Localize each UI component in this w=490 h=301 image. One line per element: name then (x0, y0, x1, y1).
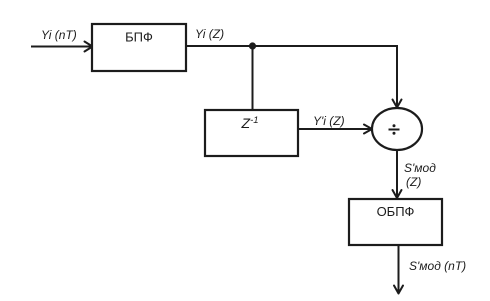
wire: Z-1 output to divider (298, 125, 372, 134)
block Z^-1 (205, 110, 298, 156)
arrowhead into divider top (393, 100, 402, 108)
svg-text:ОБПФ: ОБПФ (377, 204, 415, 219)
node: junction dot (249, 42, 256, 49)
svg-text:Yi (Z): Yi (Z) (195, 27, 224, 41)
wire: output arrow from ОБПФ (394, 245, 403, 294)
svg-text:Yi (nT): Yi (nT) (41, 28, 77, 42)
wire: input arrow into БПФ (31, 42, 93, 52)
block БПФ (92, 24, 186, 71)
svg-text:(Z): (Z) (406, 175, 421, 189)
svg-text:S'мод (nT): S'мод (nT) (409, 259, 466, 273)
wire: junction down to Z-1 (252, 46, 254, 110)
block ОБПФ (349, 199, 442, 245)
wire: divider to ОБПФ (393, 150, 402, 198)
label S'мод (Z) (404, 161, 436, 189)
divider U1 (372, 108, 422, 150)
svg-text:Y'i (Z): Y'i (Z) (313, 114, 345, 128)
svg-text:БПФ: БПФ (125, 30, 153, 45)
svg-text:S'мод: S'мод (404, 161, 436, 175)
wire: БПФ output to divider (top run) (186, 46, 397, 107)
